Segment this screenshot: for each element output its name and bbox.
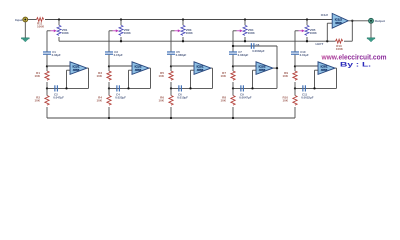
node junction dot noninverting stage 1	[46, 65, 48, 67]
label VR3 100K	[186, 28, 194, 35]
svg-text:C8: C8	[256, 43, 260, 47]
wire rail to potentiometer VR5	[306, 20, 308, 26]
svg-text:By : L.: By : L.	[340, 62, 371, 69]
label R2 10K	[34, 95, 40, 102]
resistor R8	[231, 96, 235, 106]
node junction dot bottom rail stage 2	[108, 117, 110, 119]
wire vertical segments stage 3	[170, 66, 172, 118]
resistor R11	[37, 18, 44, 22]
svg-text:0.0047µF: 0.0047µF	[239, 95, 252, 99]
op-amp IC2/1 4558	[194, 62, 211, 75]
svg-text:Input: Input	[15, 18, 23, 22]
capacitor C11	[302, 85, 306, 91]
node junction dot rail stage 2	[120, 18, 122, 20]
node junction dot bottom rail stage 3	[170, 117, 172, 119]
op-amp IC1/2 4558	[132, 62, 149, 75]
label R7 10K	[220, 71, 226, 78]
wire pot bottom to bus	[244, 37, 246, 41]
wiper arrow of VR5	[295, 29, 305, 32]
wire output bus LEFT net	[59, 40, 352, 42]
node junction dot rail stage 4	[244, 18, 246, 20]
resistor R4	[107, 96, 111, 106]
label IC1/2 above op-amp	[321, 13, 329, 17]
wire feedback from output	[351, 21, 353, 41]
svg-text:www.eleccircuit.com: www.eleccircuit.com	[321, 53, 387, 62]
wire output connector to ground	[370, 23, 372, 38]
wire vertical segments stage 5	[294, 66, 296, 118]
svg-text:10K: 10K	[282, 98, 288, 102]
wire op-amp output feedback drop	[273, 68, 277, 88]
node junction dot inverting riser	[326, 40, 328, 42]
capacitor C1	[43, 51, 51, 54]
capacitor C5	[167, 51, 175, 54]
svg-text:10K: 10K	[34, 74, 40, 78]
label R13 100K	[336, 44, 344, 51]
wire feedback bottom	[109, 87, 151, 89]
label C1 0.33µF	[52, 50, 61, 57]
svg-text:0.022µF: 0.022µF	[115, 95, 126, 99]
wire rail to potentiometer VR4	[244, 20, 246, 26]
wire connector to R11	[28, 19, 37, 21]
wire pot bottom to bus	[182, 37, 184, 41]
svg-text:100K: 100K	[248, 31, 256, 35]
svg-text:0.33µF: 0.33µF	[52, 53, 61, 57]
wire op-amp output feedback drop	[335, 68, 337, 88]
op-amp IC1/2 4558	[332, 13, 348, 28]
label C5 0.068µF	[176, 50, 187, 57]
resistor R5	[169, 71, 173, 80]
svg-text:10K: 10K	[158, 74, 164, 78]
node junction dot rail stage 5	[306, 18, 308, 20]
svg-text:4558: 4558	[135, 68, 142, 72]
wire capacitor to noninverting node	[294, 55, 296, 67]
resistor R13	[336, 39, 343, 43]
wire feedback bottom	[295, 87, 337, 89]
node junction dot bus stage 3	[182, 40, 184, 42]
wiper arrow of VR1	[47, 29, 57, 32]
node junction dot noninverting stage 4	[232, 65, 234, 67]
wire feedback bottom	[171, 87, 213, 89]
watermark By : L.	[340, 62, 371, 69]
label R9 10K	[282, 71, 288, 78]
label R10 10K	[282, 95, 288, 102]
label C6 0.015µF	[177, 92, 188, 99]
wire extra branch stage 4	[233, 46, 277, 68]
potentiometer VR2	[119, 25, 123, 35]
svg-text:Output: Output	[375, 19, 385, 23]
potentiometer VR3	[181, 25, 185, 35]
svg-text:100K: 100K	[37, 24, 45, 28]
label C2 0.047µF	[53, 92, 64, 99]
node junction dot output	[351, 20, 353, 22]
svg-text:10K: 10K	[220, 74, 226, 78]
label VR5 100K	[310, 28, 318, 35]
node junction dot inverting stage 5	[313, 87, 315, 89]
node junction dot rail stage 1	[58, 18, 60, 20]
svg-text:10K: 10K	[220, 98, 226, 102]
wire op-amp output feedback drop	[211, 68, 213, 88]
label C8 0.0033µF	[252, 43, 265, 53]
node junction dot inverting stage 4	[251, 87, 253, 89]
resistor R9	[293, 71, 297, 80]
label VR1 100K	[62, 28, 70, 35]
wire rail to potentiometer VR1	[58, 20, 60, 26]
node Input label	[15, 18, 23, 22]
svg-text:100K: 100K	[336, 47, 344, 51]
svg-text:4558: 4558	[259, 68, 266, 72]
label C4 0.022µF	[115, 92, 126, 99]
wire op-amp - input riser	[315, 70, 319, 88]
svg-text:0.068µF: 0.068µF	[176, 53, 187, 57]
wire rail to potentiometer VR2	[120, 20, 122, 26]
wire op-amp output feedback drop	[149, 68, 151, 88]
svg-text:0.01µF: 0.01µF	[300, 53, 309, 57]
node junction dot feedback left stage 4	[232, 87, 234, 89]
wire to op-amp + input	[295, 65, 318, 67]
node junction dot inverting stage 2	[127, 87, 129, 89]
svg-text:IC1/2: IC1/2	[321, 13, 329, 17]
op-amp IC1/1 4558	[70, 62, 87, 75]
wire feedback bottom	[233, 87, 277, 89]
wire to op-amp + input	[233, 65, 256, 67]
node junction dot feedback left stage 2	[108, 87, 110, 89]
wire vertical segments stage 4	[232, 66, 234, 118]
node junction dot bottom rail stage 4	[232, 117, 234, 119]
wire op-amp - input riser	[129, 70, 133, 88]
node junction dot branch top	[232, 45, 234, 47]
label R5 10K	[158, 71, 164, 78]
wire op-amp - input riser	[191, 70, 195, 88]
ground below input	[21, 38, 29, 42]
svg-text:0.0022µF: 0.0022µF	[301, 95, 314, 99]
node junction dot inverting stage 1	[65, 87, 67, 89]
wire wiper down to capacitor C1	[46, 31, 48, 52]
resistor R7	[231, 71, 235, 80]
wire input connector to ground	[24, 22, 26, 38]
node junction dot feedback left stage 3	[170, 87, 172, 89]
wire wiper down to capacitor C3	[108, 31, 110, 52]
node junction dot feedback left stage 1	[46, 87, 48, 89]
potentiometer VR4	[243, 25, 247, 35]
svg-text:100K: 100K	[62, 31, 70, 35]
capacitor C4	[116, 85, 120, 91]
wire capacitor to noninverting node	[170, 55, 172, 67]
bottom rail wire	[47, 117, 295, 119]
wire top rail	[45, 19, 332, 21]
label R3 10K	[96, 71, 102, 78]
svg-text:4558: 4558	[73, 68, 80, 72]
node junction dot branch output	[276, 67, 278, 69]
label R4 10K	[96, 95, 102, 102]
ground below output	[367, 38, 375, 42]
wire vertical segments stage 1	[46, 66, 48, 118]
capacitor C6	[178, 85, 182, 91]
wire op-amp output feedback drop	[87, 68, 89, 88]
capacitor C10	[291, 51, 299, 54]
label C11 0.0022µF	[301, 92, 314, 99]
label R6 10K	[158, 95, 164, 102]
label VR2 100K	[124, 28, 132, 35]
label LEFT net	[316, 42, 324, 46]
node junction dot inverting stage 3	[189, 87, 191, 89]
node junction dot bus stage 2	[120, 40, 122, 42]
label C10 0.01µF	[300, 50, 309, 57]
capacitor C2	[54, 85, 58, 91]
svg-text:100K: 100K	[310, 31, 318, 35]
wire riser to op-amp inverting input	[327, 23, 332, 41]
label VR4 100K	[248, 28, 256, 35]
label C7 0.033µF	[238, 50, 249, 57]
wire op-amp - input riser	[67, 70, 71, 88]
potentiometer VR1	[57, 25, 61, 35]
wiper arrow of VR4	[233, 29, 243, 32]
svg-text:0.047µF: 0.047µF	[53, 95, 64, 99]
wire wiper down to capacitor C7	[232, 31, 234, 52]
label R8 10K	[220, 95, 226, 102]
wire vertical segments stage 2	[108, 66, 110, 118]
wire op-amp output	[348, 20, 368, 22]
svg-text:10K: 10K	[158, 98, 164, 102]
capacitor C9	[240, 85, 244, 91]
label C3 0.15µF	[114, 50, 123, 57]
svg-text:100K: 100K	[124, 31, 132, 35]
wire capacitor to noninverting node	[232, 55, 234, 67]
potentiometer VR5	[305, 25, 309, 35]
capacitor C8	[251, 43, 255, 49]
wire capacitor to noninverting node	[108, 55, 110, 67]
wire wiper down to capacitor C10	[294, 31, 296, 52]
svg-text:4558: 4558	[335, 21, 342, 25]
node junction dot feedback left stage 5	[294, 87, 296, 89]
node junction dot noninverting stage 5	[294, 65, 296, 67]
input connector J1	[23, 17, 28, 22]
wire to op-amp + input	[171, 65, 194, 67]
resistor R2	[45, 96, 49, 106]
op-amp IC3/1 4558	[318, 62, 335, 75]
svg-text:0.0033µF: 0.0033µF	[252, 49, 265, 53]
capacitor C3	[105, 51, 113, 54]
svg-text:10K: 10K	[96, 74, 102, 78]
svg-text:LEFT: LEFT	[316, 42, 324, 46]
wire pot bottom to bus	[58, 37, 60, 41]
wiper arrow of VR3	[171, 29, 181, 32]
svg-text:10K: 10K	[282, 74, 288, 78]
wire pot bottom to bus	[120, 37, 122, 41]
wire wiper down to capacitor C5	[170, 31, 172, 52]
wire to op-amp + input	[109, 65, 132, 67]
svg-text:0.15µF: 0.15µF	[114, 53, 123, 57]
wire rail to potentiometer VR3	[182, 20, 184, 26]
node junction dot noninverting stage 3	[170, 65, 172, 67]
output connector J2	[369, 18, 374, 23]
svg-text:100K: 100K	[186, 31, 194, 35]
svg-text:0.033µF: 0.033µF	[238, 53, 249, 57]
wire to op-amp + input	[47, 65, 70, 67]
label C9 0.0047µF	[239, 92, 252, 99]
svg-text:0.015µF: 0.015µF	[177, 95, 188, 99]
node junction dot bus stage 4	[244, 40, 246, 42]
label R1 10K	[34, 71, 40, 78]
resistor R3	[107, 71, 111, 80]
svg-text:4558: 4558	[321, 68, 328, 72]
wire capacitor to noninverting node	[46, 55, 48, 67]
wiper arrow of VR2	[109, 29, 119, 32]
label R11 100K	[37, 21, 45, 28]
wire op-amp - input riser	[253, 70, 257, 88]
resistor R10	[293, 96, 297, 106]
capacitor C7	[229, 51, 237, 54]
node junction dot noninverting stage 2	[108, 65, 110, 67]
label Output	[375, 19, 385, 23]
resistor R6	[169, 96, 173, 106]
resistor R1	[45, 71, 49, 80]
op-amp IC2/2 4558	[256, 62, 273, 75]
wire pot bottom to bus	[306, 37, 308, 41]
svg-text:4558: 4558	[197, 68, 204, 72]
svg-text:10K: 10K	[34, 98, 40, 102]
node junction dot rail stage 3	[182, 18, 184, 20]
svg-text:10K: 10K	[96, 98, 102, 102]
node junction dot bus stage 5	[306, 40, 308, 42]
wire feedback bottom	[47, 87, 89, 89]
